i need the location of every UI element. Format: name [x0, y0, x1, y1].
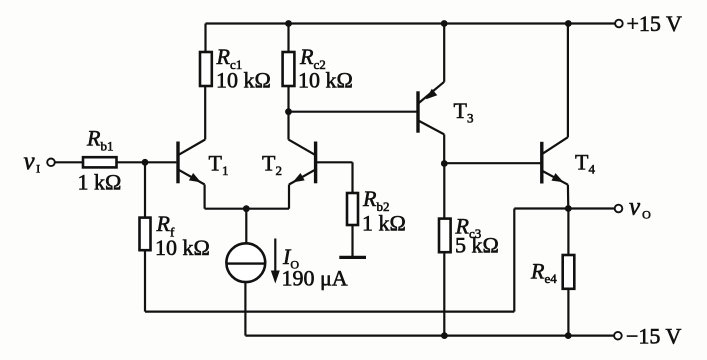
transistor T3 emitter diag [418, 82, 444, 104]
transistor T2 emitter arrow [290, 173, 304, 186]
wire top +15V rail [206, 22, 616, 24]
wire base node down to Rf [144, 162, 146, 217]
transistor T1 emitter [178, 169, 205, 184]
svg-text:+15 V: +15 V [627, 11, 683, 36]
transistor T4 base bar [540, 142, 543, 184]
resistor Re4 [563, 255, 575, 289]
wire T3 collector down [443, 134, 445, 163]
wire T4 collector up to rail [567, 24, 569, 138]
resistor Rb1 [83, 157, 117, 167]
wire T1 emitter down [204, 185, 206, 209]
svg-text:1 kΩ: 1 kΩ [362, 211, 406, 236]
wire Re4 down to rail [567, 289, 569, 336]
wire bottom -15V rail [245, 335, 614, 337]
wire Rc2 down to node [287, 86, 289, 112]
node rail-Rc2 junction [285, 20, 292, 27]
transistor T1 collector [178, 140, 205, 156]
terminal +15V open circle [615, 20, 623, 28]
transistor T3 emitter arrow [423, 89, 437, 103]
svg-text:10 kΩ: 10 kΩ [155, 235, 210, 260]
svg-text:10 kΩ: 10 kΩ [298, 68, 353, 93]
svg-text:5 kΩ: 5 kΩ [455, 233, 499, 258]
node rail-T4 junction [565, 20, 572, 27]
resistor Rc3 [439, 219, 451, 253]
transistor T4 emitter arrow [551, 173, 565, 186]
wire node down to Rc3 [443, 164, 445, 219]
wire feedback vertical up [513, 209, 515, 312]
svg-text:190 μA: 190 μA [282, 266, 348, 291]
wire vO node to terminal [568, 207, 614, 209]
wire node to T3 base [289, 111, 419, 113]
node vO junction [565, 205, 572, 212]
transistor T2 collector [289, 140, 316, 156]
wire Rc3 down to rail [443, 252, 445, 335]
wire Rb2 down to ground [351, 225, 353, 257]
ground [339, 256, 366, 259]
node T3 collector junction [441, 160, 448, 167]
transistor T2 emitter [289, 169, 316, 184]
terminal vO open circle [615, 205, 623, 213]
wire vO node down to Re4 [567, 209, 569, 256]
svg-text:1 kΩ: 1 kΩ [78, 170, 122, 195]
resistor Rf [140, 218, 151, 251]
wire T3 emitter up to rail [443, 24, 445, 82]
wire common emitter horizontal [205, 208, 289, 210]
svg-text:−15 V: −15 V [626, 324, 682, 349]
transistor T4 collector diag [542, 137, 568, 154]
node rail-T3 junction [441, 20, 448, 27]
transistor T4 emitter diag [542, 171, 568, 185]
node Rc2-T2-T3 junction [285, 108, 292, 115]
wire source down to rail corner [244, 282, 246, 336]
wire T2 emitter down [288, 185, 290, 209]
wire T2 base right [316, 161, 353, 163]
wire node to T4 base [444, 162, 541, 164]
node rail-Rc3 junction [441, 332, 448, 339]
transistor T1 base bar [176, 142, 179, 184]
wire Rb1 to T1 base [117, 161, 177, 163]
wire feedback horizontal [145, 311, 514, 313]
terminal -15V open circle [614, 332, 622, 340]
node common emitters [243, 205, 250, 212]
transistor T3 base bar [416, 91, 419, 132]
transistor T1 emitter arrow [189, 173, 203, 186]
wire Rf down to feedback corner [144, 250, 146, 311]
wire down to Rb2 [351, 162, 353, 193]
svg-text:10 kΩ: 10 kΩ [216, 68, 271, 93]
wire node down to T2 collector [287, 112, 289, 140]
resistor Rc1 [200, 52, 212, 86]
wire Rc1 to T1 collector [204, 86, 206, 140]
resistor Rb2 [347, 193, 358, 225]
transistor T3 collector diag [418, 120, 444, 134]
resistor Rc2 [283, 52, 295, 86]
wire T4 emitter down to vO node [567, 185, 570, 209]
node T1 base junction [142, 159, 149, 166]
wire vI to Rb1 [55, 161, 83, 163]
current source IO bar [226, 262, 265, 264]
transistor T2 base bar [314, 142, 317, 184]
wire rail down to Rc1 [204, 24, 206, 53]
current source IO circle [226, 243, 265, 282]
wire feedback to vO node [514, 207, 568, 209]
node rail-Re4 junction [565, 332, 572, 339]
current direction arrowhead [271, 271, 280, 284]
current direction arrow line [274, 239, 276, 272]
wire common node down to source [245, 209, 247, 244]
terminal vI open circle [47, 159, 55, 167]
wire rail down to Rc2 [287, 24, 289, 53]
